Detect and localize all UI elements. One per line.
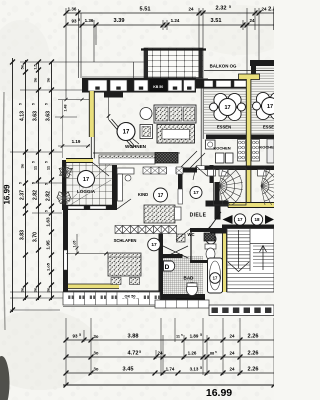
svg-text:16.99: 16.99 (206, 387, 232, 399)
svg-text:24: 24 (261, 7, 267, 12)
svg-text:11: 11 (176, 335, 180, 339)
sideboard WOHNEN south (99, 155, 155, 164)
svg-text:3.88: 3.88 (128, 334, 139, 340)
svg-text:3o: 3o (94, 367, 99, 372)
wall: SCHLAFEN south line (63, 290, 160, 292)
wall: SCHLAFEN west (63, 210, 68, 296)
wall: WC-BAD divider (190, 260, 222, 263)
svg-text:5: 5 (45, 103, 49, 105)
svg-text:5: 5 (139, 350, 141, 354)
svg-text:1.36: 1.36 (85, 18, 94, 23)
svg-text:3.13: 3.13 (190, 367, 199, 372)
svg-text:5.51: 5.51 (140, 7, 151, 13)
cooker KOCHEN (238, 140, 246, 162)
LOGGIA deck grid (64, 162, 112, 206)
wardrobe dark block (155, 153, 178, 164)
wall: stair hall top (222, 225, 274, 229)
nook dim + open door leaf WOHNEN (107, 97, 135, 148)
svg-text:D: D (165, 264, 170, 271)
wall: BAD north segment (159, 254, 183, 258)
flat number circles 17 18 with arrows (223, 214, 275, 225)
svg-text:5: 5 (215, 350, 217, 354)
label LOGGIA (73, 188, 99, 195)
kitchen counters KOCHEN (206, 140, 234, 163)
svg-text:3.70: 3.70 (33, 232, 39, 242)
washer square near WC (177, 234, 186, 242)
top dimension chain (64, 5, 276, 100)
svg-text:3.39: 3.39 (114, 18, 125, 24)
yellow wall: WOHNEN west + lower stub (89, 91, 94, 159)
svg-text:24: 24 (229, 367, 235, 372)
svg-text:24: 24 (188, 7, 194, 12)
wall: KOCHEN-stair vertical (210, 165, 214, 183)
svg-text:5: 5 (45, 161, 49, 163)
bed SCHLAFEN with nightstands (108, 253, 141, 285)
room number circle WC (206, 234, 216, 244)
wall: WOHNEN-ESSEN divider (200, 84, 202, 168)
yellow wall: stairwell west (223, 228, 227, 292)
svg-text:5: 5 (32, 182, 36, 184)
yellow wall: SCHLAFEN south (67, 284, 119, 289)
room number circle LOGGIA (78, 171, 95, 188)
svg-text:5: 5 (79, 333, 81, 337)
door swings WC/BAD (163, 246, 188, 258)
terrace band below BAD (155, 300, 209, 308)
svg-text:SCHLAFEN: SCHLAFEN (114, 238, 137, 243)
svg-text:3o: 3o (46, 287, 51, 292)
svg-text:LOGGIA: LOGGIA (77, 189, 96, 194)
wall: ESSEN-KOCHEN divider (206, 135, 246, 140)
yellow wall: party wall vertical + T cap (239, 74, 260, 205)
wall: WOHNEN north band with units KB 50 (82, 77, 196, 93)
svg-text:5: 5 (32, 161, 36, 163)
door swing WOHNEN-DIELE a (181, 151, 197, 167)
round chair WOHNEN (140, 108, 152, 120)
entry door swing (208, 212, 221, 230)
room number circle DIELE (190, 187, 202, 199)
winder stair left (219, 163, 243, 210)
room number circle KIND (154, 188, 168, 202)
svg-text:17: 17 (158, 193, 164, 199)
wall: KIND west (112, 165, 117, 210)
svg-text:17: 17 (83, 177, 89, 183)
wall: KOCHEN south (196, 166, 274, 171)
svg-text:24: 24 (229, 351, 235, 356)
svg-text:ESSEN: ESSEN (263, 125, 274, 130)
svg-text:3o: 3o (94, 334, 99, 339)
kitchen counter mirror east (267, 139, 274, 163)
scan blob bottom-left (0, 356, 10, 400)
closet band: KIND south (X boxes) (115, 226, 177, 234)
svg-text:KB 50: KB 50 (153, 85, 163, 89)
svg-text:3.45: 3.45 (123, 367, 134, 373)
dining table ESSEN with chairs (210, 93, 246, 120)
yellow wall: LOGGIA top (66, 159, 93, 163)
balcony BALKON OG railing grid (133, 48, 208, 81)
svg-text:17: 17 (213, 276, 218, 281)
window: SCHLAFEN west (64, 250, 67, 270)
svg-text:2.26: 2.26 (248, 351, 259, 357)
svg-text:1,5: 1,5 (34, 64, 38, 69)
svg-text:2.32: 2.32 (216, 6, 227, 12)
svg-text:2.26: 2.26 (248, 334, 259, 340)
svg-text:2.82: 2.82 (46, 191, 52, 201)
svg-text:KOCHEN: KOCHEN (259, 145, 274, 150)
wall: ESSEN north with windows (196, 71, 274, 89)
svg-text:17: 17 (123, 130, 130, 136)
wall: KIND-DIELE (178, 167, 183, 189)
svg-text:18: 18 (254, 217, 260, 222)
dining table mirror ESSEN (253, 92, 284, 119)
svg-text:17: 17 (267, 104, 273, 110)
coffee table WOHNEN on rug (157, 125, 195, 144)
svg-text:5: 5 (200, 333, 202, 337)
svg-text:ESSEN: ESSEN (217, 125, 231, 130)
svg-text:3o: 3o (46, 77, 51, 82)
svg-text:4.13: 4.13 (20, 111, 26, 121)
balcony slab west edge (133, 62, 135, 79)
svg-text:WOHNEN: WOHNEN (125, 144, 147, 149)
svg-text:93: 93 (72, 334, 78, 339)
scan edge artifact left (3, 92, 5, 330)
svg-text:OK 50: OK 50 (125, 295, 136, 299)
svg-text:BAD: BAD (184, 276, 195, 281)
svg-text:5: 5 (45, 210, 49, 212)
svg-text:BALKON OG: BALKON OG (210, 64, 237, 69)
svg-text:5: 5 (32, 103, 36, 105)
svg-text:5: 5 (181, 333, 183, 337)
svg-text:93: 93 (71, 19, 77, 24)
dims left of WOHNEN nook (1.19 / 1.48) (55, 98, 90, 158)
svg-text:5: 5 (19, 182, 23, 184)
svg-text:17: 17 (151, 242, 157, 248)
svg-text:5: 5 (19, 103, 23, 105)
svg-text:88: 88 (210, 352, 214, 356)
svg-text:1.26: 1.26 (188, 351, 197, 356)
mirror ESSEN floor hatch (252, 66, 275, 134)
svg-text:3o: 3o (20, 163, 25, 168)
sill bar: BAD south (176, 298, 205, 304)
wall: DIELE east chunk (206, 201, 229, 207)
sofa group WOHNEN (154, 105, 196, 123)
label OK 50 (121, 293, 139, 299)
wall: WOHNEN south line (93, 152, 180, 154)
svg-text:5: 5 (45, 183, 49, 185)
terrace band below stair (dark posts) (209, 305, 274, 316)
wall: LOGGIA west (62, 160, 66, 207)
svg-text:WC: WC (188, 232, 195, 237)
armchair WOHNEN (140, 125, 153, 139)
svg-text:5o: 5o (20, 64, 25, 69)
svg-text:1.19: 1.19 (72, 139, 81, 144)
desk KIND (117, 168, 134, 174)
svg-text:3.51: 3.51 (211, 18, 222, 24)
wall: WC west (190, 232, 192, 262)
svg-text:1.63: 1.63 (46, 217, 52, 227)
svg-text:4.72: 4.72 (128, 351, 139, 357)
yellow wall: stair hall north (228, 203, 274, 208)
winder stair right (261, 163, 285, 210)
svg-text:5: 5 (229, 5, 231, 9)
svg-text:1.95: 1.95 (46, 240, 52, 250)
terrace band below SCHLAFEN (63, 291, 160, 306)
stair border left (214, 168, 247, 205)
wall: SCHLAFEN-BAD (159, 233, 164, 296)
svg-text:17: 17 (193, 190, 199, 196)
left dimension chains (3, 58, 145, 313)
bed KIND (144, 205, 181, 223)
washbasin BAD (164, 261, 175, 271)
leader line WOHNEN (133, 139, 140, 145)
svg-text:2.3: 2.3 (268, 7, 274, 13)
door jamb KIND-DIELE (178, 189, 183, 204)
WC fixtures (204, 233, 216, 260)
bottom dimension chain (63, 318, 277, 399)
door swing DIELE-KOCHEN (196, 166, 207, 176)
svg-text:1.36: 1.36 (68, 7, 77, 12)
BAD tile floor (163, 256, 203, 295)
svg-text:1.48: 1.48 (64, 105, 68, 112)
window boxes below KOCHEN (208, 170, 216, 177)
svg-text:1.24: 1.24 (171, 18, 180, 23)
svg-text:1.o5: 1.o5 (46, 262, 51, 271)
cooker mirror KOCHEN (252, 140, 260, 162)
closet band: KIND north (X boxes) (143, 167, 197, 175)
svg-text:3.63: 3.63 (33, 111, 39, 121)
shelf KIND (118, 174, 123, 201)
wall: BAD south (155, 294, 205, 301)
svg-text:KOCHEN: KOCHEN (213, 146, 230, 151)
door swing LOGGIA (93, 163, 109, 176)
svg-text:24: 24 (229, 334, 235, 339)
svg-text:3.63: 3.63 (46, 111, 52, 121)
svg-text:3o: 3o (20, 287, 25, 292)
svg-text:17: 17 (224, 105, 230, 111)
svg-text:3o: 3o (94, 351, 99, 356)
svg-text:3o: 3o (33, 287, 38, 292)
plants at LOGGIA (57, 166, 73, 205)
room number circle SCHLAFEN (148, 238, 161, 251)
svg-text:17: 17 (237, 217, 243, 222)
toilet BAD (187, 283, 198, 296)
svg-text:1.89: 1.89 (190, 334, 199, 339)
room number circle WOHNEN (117, 123, 135, 141)
svg-text:DIELE: DIELE (190, 213, 207, 219)
svg-text:KIND: KIND (138, 192, 148, 197)
svg-text:1.o5: 1.o5 (73, 240, 77, 247)
svg-text:1.74: 1.74 (166, 367, 175, 372)
svg-text:2.82: 2.82 (33, 190, 39, 200)
door swing WOHNEN-DIELE b (188, 153, 205, 170)
ESSEN floor hatch (204, 89, 246, 135)
svg-text:2.37: 2.37 (20, 190, 26, 200)
main staircase (227, 229, 274, 293)
door swing KIND (117, 199, 131, 209)
wall: mirror apartment north (250, 60, 274, 76)
svg-text:2.26: 2.26 (248, 367, 259, 373)
window boxes below mirror KOCHEN (258, 170, 267, 177)
dims at SCHLAFEN bed (66, 234, 108, 255)
chair KIND (125, 175, 131, 181)
threshold block balcony door (104, 93, 123, 98)
svg-text:24: 24 (249, 18, 255, 23)
wall: WC north (190, 228, 222, 232)
svg-text:5: 5 (78, 18, 80, 22)
bathtub with room number (208, 258, 223, 293)
svg-text:24: 24 (157, 351, 163, 356)
svg-text:5: 5 (200, 366, 202, 370)
svg-text:3.83: 3.83 (20, 230, 26, 240)
wall: LOGGIA south band (62, 205, 114, 210)
svg-text:3o: 3o (33, 77, 38, 82)
